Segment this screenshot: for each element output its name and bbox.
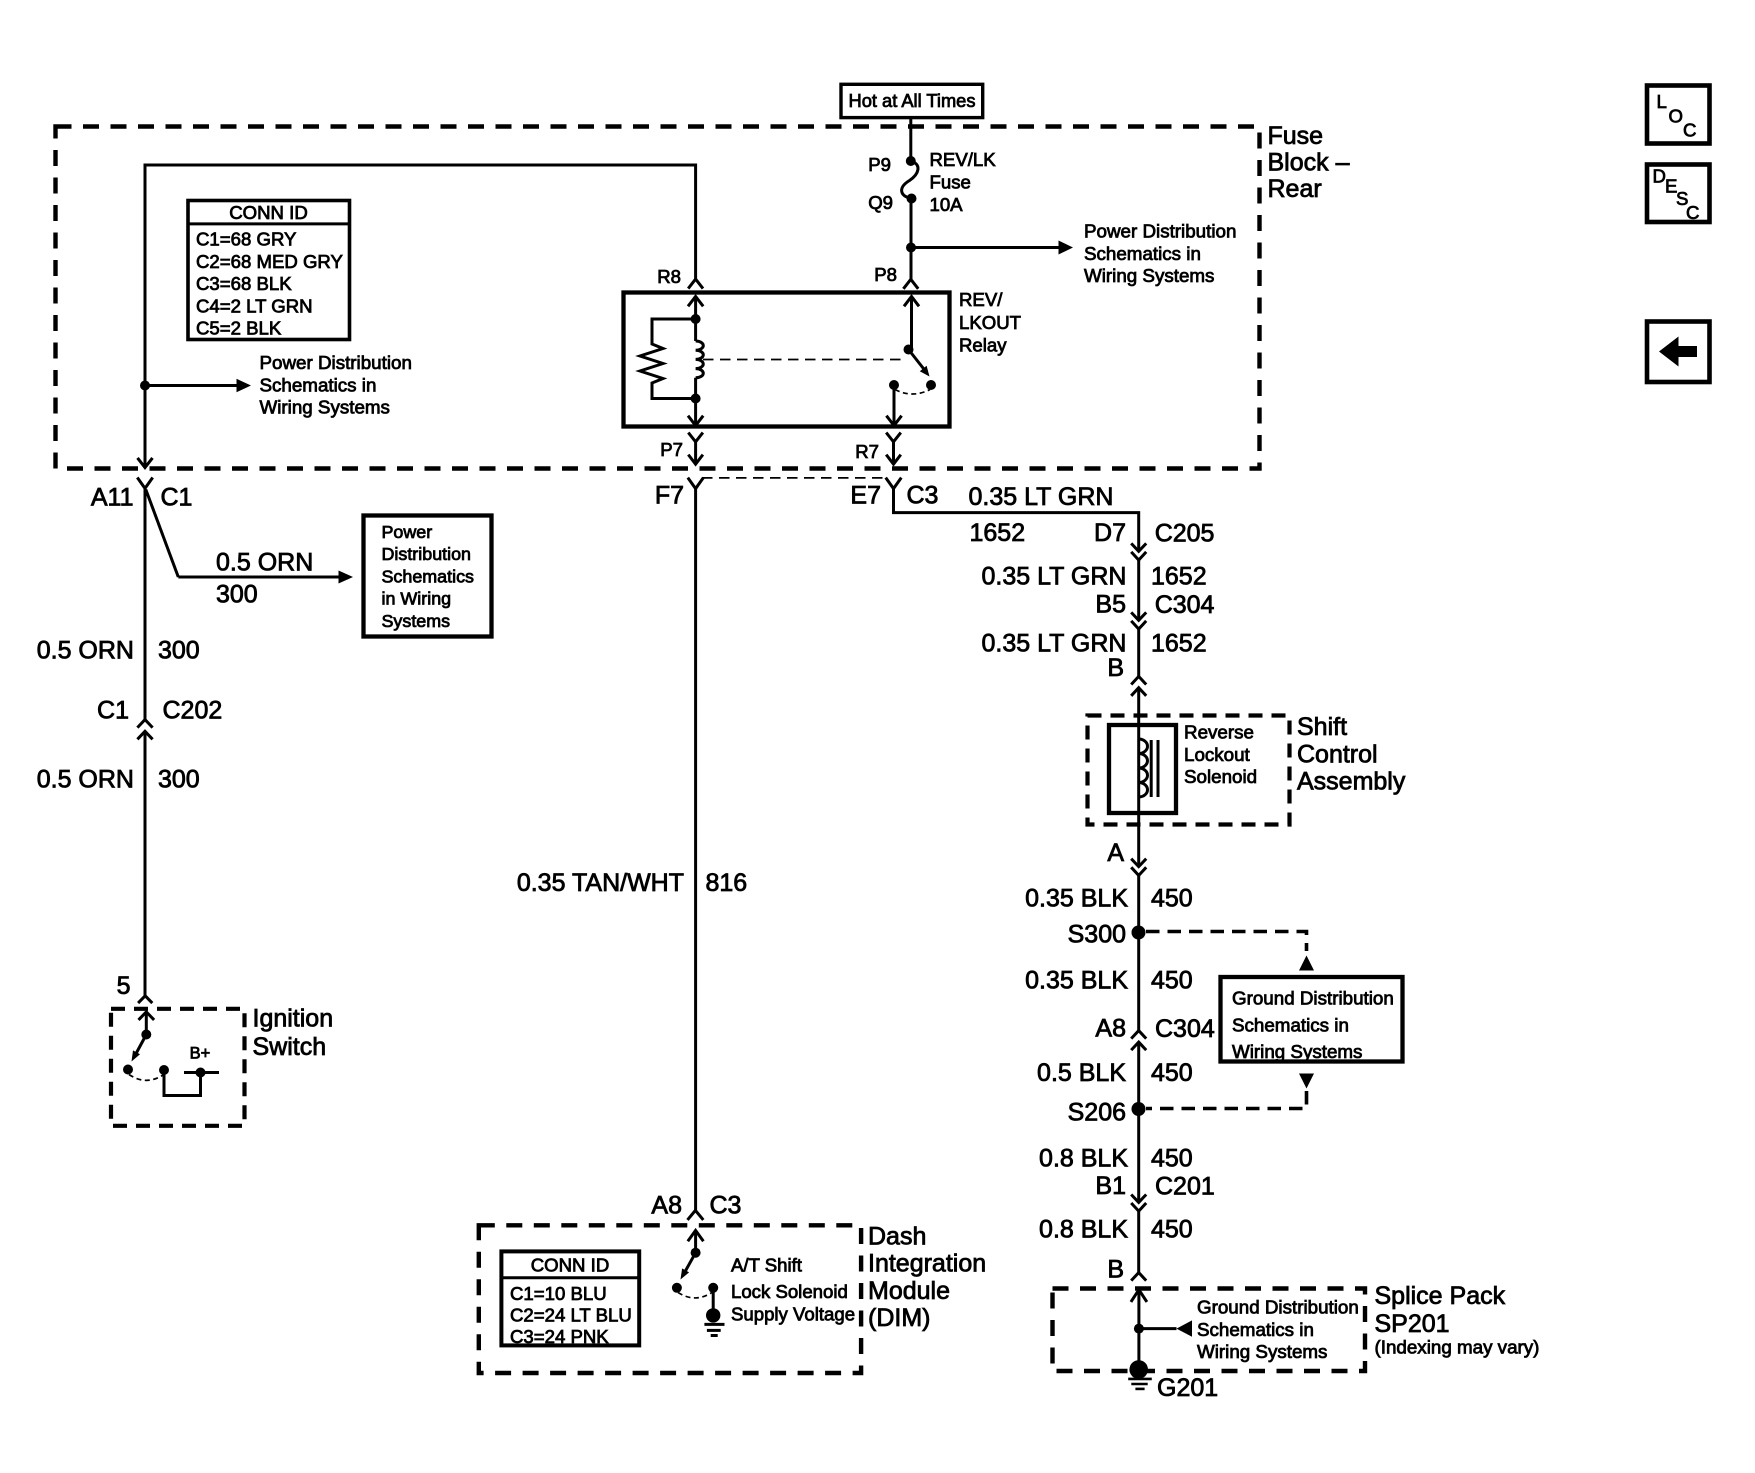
terminal P9 (868, 154, 916, 175)
relay switch contacts (889, 380, 936, 394)
svg-text:P7: P7 (660, 439, 683, 460)
svg-text:0.35 LT GRN: 0.35 LT GRN (982, 630, 1127, 658)
wire fuse block top run to R8 (145, 165, 696, 468)
connector E7 / C3 (850, 478, 938, 510)
relay coil-contact dashed link (703, 359, 904, 361)
conn id table DIM (501, 1251, 639, 1347)
relay pin P8 arrow (904, 297, 919, 350)
svg-text:0.5 BLK: 0.5 BLK (1037, 1059, 1126, 1087)
svg-text:Distribution: Distribution (382, 544, 472, 564)
svg-text:0.8 BLK: 0.8 BLK (1039, 1216, 1128, 1244)
svg-text:O: O (1669, 106, 1683, 127)
svg-text:1652: 1652 (970, 519, 1026, 547)
svg-text:C201: C201 (1155, 1173, 1215, 1201)
svg-text:R8: R8 (657, 266, 681, 287)
splice pack SP201 dashed enclosure (1053, 1289, 1366, 1372)
dashed reference ground distribution to S206 (1146, 1091, 1307, 1109)
svg-text:B1: B1 (1095, 1172, 1126, 1200)
connector B5 / C304 (1095, 591, 1214, 630)
svg-text:C3=68 BLK: C3=68 BLK (196, 273, 292, 294)
connector link F7-E7 dashed (702, 477, 887, 479)
svg-text:C: C (1686, 202, 1699, 223)
svg-text:D: D (1653, 166, 1666, 187)
relay switch arm (904, 345, 930, 377)
terminal Q9 (868, 192, 916, 213)
reference arrow ground distribution (splice pack) (1139, 1297, 1359, 1363)
label Dash Integration Module (DIM) (868, 1223, 986, 1333)
arrow out of ground distribution box (1299, 1074, 1314, 1089)
reference arrow to power distribution schematics (top) (911, 221, 1236, 287)
svg-text:in Wiring: in Wiring (382, 589, 452, 609)
wire label 0.5 ORN 300 upper (37, 637, 200, 665)
svg-text:A8: A8 (651, 1192, 682, 1220)
svg-text:1652: 1652 (1151, 563, 1207, 591)
svg-text:Relay: Relay (959, 335, 1007, 356)
svg-text:Schematics in: Schematics in (1232, 1015, 1349, 1036)
svg-text:A11: A11 (91, 484, 134, 512)
svg-text:Supply Voltage: Supply Voltage (731, 1303, 855, 1324)
svg-text:0.8 BLK: 0.8 BLK (1039, 1145, 1128, 1173)
svg-text:F7: F7 (655, 482, 684, 510)
svg-text:Fuse: Fuse (930, 172, 971, 193)
svg-text:0.5 ORN: 0.5 ORN (37, 766, 134, 794)
connector pin B splice pack (1107, 1256, 1146, 1284)
fuse block rear dashed enclosure (56, 127, 1260, 469)
connector P7 (660, 433, 703, 465)
shift control assembly dashed enclosure (1088, 716, 1290, 825)
connector C1 / C202 (97, 697, 222, 740)
svg-text:Ground Distribution: Ground Distribution (1232, 988, 1394, 1009)
wire A11 exit arrow (138, 458, 153, 468)
splice S300 (1068, 921, 1146, 949)
relay pin R7 arrow (886, 385, 901, 426)
connector D7 / C205 (1094, 519, 1214, 560)
svg-text:CONN ID: CONN ID (229, 202, 308, 223)
svg-text:C5=2 BLK: C5=2 BLK (196, 318, 282, 339)
svg-text:B: B (1107, 1256, 1124, 1284)
svg-text:450: 450 (1151, 967, 1193, 995)
connector B1 / C201 (1095, 1172, 1214, 1211)
solenoid coil L1 (1139, 739, 1158, 797)
svg-text:450: 450 (1151, 885, 1193, 913)
svg-text:450: 450 (1151, 1059, 1193, 1087)
svg-text:C2=24 LT BLU: C2=24 LT BLU (510, 1305, 632, 1326)
ground distribution schematics box (1221, 977, 1403, 1062)
svg-text:R7: R7 (855, 441, 879, 462)
svg-text:C1=10 BLU: C1=10 BLU (510, 1283, 607, 1304)
wire C202 down to ignition switch (144, 731, 147, 996)
svg-text:C3: C3 (907, 482, 939, 510)
svg-text:Solenoid: Solenoid (1184, 766, 1257, 787)
svg-text:Lock Solenoid: Lock Solenoid (731, 1281, 848, 1302)
node splice pack junction (1134, 1324, 1144, 1334)
relay pin R8 arrow (688, 297, 703, 320)
svg-text:REV/LK: REV/LK (930, 149, 997, 170)
svg-text:D7: D7 (1094, 519, 1126, 547)
connector pin A shift control (1107, 839, 1146, 875)
svg-text:Wiring Systems: Wiring Systems (1232, 1041, 1362, 1062)
svg-text:Assembly: Assembly (1297, 768, 1406, 796)
svg-text:S206: S206 (1068, 1099, 1126, 1127)
connector F7 (655, 478, 704, 510)
wire F7 down to DIM (694, 489, 697, 1211)
svg-text:Module: Module (868, 1277, 950, 1305)
relay coil (696, 319, 704, 399)
svg-text:Schematics in: Schematics in (1197, 1319, 1314, 1340)
wire label 0.8 BLK 450 (first) (1039, 1145, 1193, 1173)
svg-text:Dash: Dash (868, 1223, 926, 1251)
wire label 0.35 LT GRN circuit 1652 (969, 483, 1114, 547)
svg-text:Switch: Switch (253, 1033, 327, 1061)
svg-text:Power Distribution: Power Distribution (1084, 221, 1236, 242)
svg-text:Schematics in: Schematics in (260, 374, 377, 395)
svg-text:Reverse: Reverse (1184, 722, 1254, 743)
connector R7 (855, 433, 901, 465)
splice S206 (1068, 1099, 1146, 1127)
svg-text:Q9: Q9 (868, 192, 893, 213)
splice pack pin arrow (1131, 1290, 1147, 1329)
label Splice Pack SP201 (1375, 1282, 1540, 1358)
svg-text:B+: B+ (190, 1045, 211, 1063)
svg-text:Ground Distribution: Ground Distribution (1197, 1297, 1359, 1318)
svg-text:300: 300 (158, 637, 200, 665)
ignition switch pin arrow (139, 1012, 155, 1035)
svg-text:0.35 BLK: 0.35 BLK (1025, 885, 1128, 913)
wire solenoid to A (1137, 797, 1140, 867)
wire fuse to relay P8 (910, 199, 913, 280)
wire label 0.35 TAN/WHT 816 (517, 869, 747, 897)
svg-text:B5: B5 (1095, 591, 1126, 619)
svg-text:C1: C1 (97, 697, 129, 725)
node power distribution tap (906, 243, 916, 253)
svg-text:A: A (1107, 839, 1124, 867)
connector pin B shift control (1107, 654, 1146, 696)
ground G201 (1128, 1329, 1218, 1402)
svg-text:LKOUT: LKOUT (959, 312, 1021, 333)
svg-text:Schematics in: Schematics in (1084, 243, 1201, 264)
relay pin P7 arrow (688, 399, 703, 426)
DIM switch travel arc (672, 1283, 712, 1298)
wire label 0.35 BLK 450 (first) (1025, 885, 1193, 913)
svg-text:REV/: REV/ (959, 289, 1003, 310)
ignition switch B+ contact (159, 1045, 219, 1096)
svg-text:Splice Pack: Splice Pack (1375, 1282, 1506, 1310)
label Ignition Switch (253, 1005, 334, 1061)
label Fuse Block - Rear (1268, 122, 1350, 203)
svg-text:Wiring Systems: Wiring Systems (260, 397, 390, 418)
svg-text:0.5 ORN: 0.5 ORN (216, 549, 313, 577)
svg-text:CONN ID: CONN ID (531, 1255, 610, 1276)
reverse lockout solenoid box (1109, 722, 1257, 814)
wire C201 to splice pack (1137, 1211, 1140, 1273)
node Hot at All Times (841, 84, 983, 117)
dashed reference S300 to ground distribution (1146, 932, 1307, 952)
svg-text:Schematics: Schematics (382, 566, 475, 586)
svg-text:450: 450 (1151, 1216, 1193, 1244)
svg-text:Fuse: Fuse (1268, 122, 1324, 150)
wire label 0.35 BLK 450 (second) (1025, 967, 1193, 995)
svg-text:Ignition: Ignition (253, 1005, 334, 1033)
svg-text:Lockout: Lockout (1184, 744, 1251, 765)
wire label 0.5 BLK 450 (1037, 1059, 1193, 1087)
connector A8 / C3 at DIM (651, 1192, 741, 1220)
svg-text:C1: C1 (161, 484, 193, 512)
ignition switch dashed enclosure (111, 1009, 245, 1126)
wire label 0.8 BLK 450 (second) (1039, 1216, 1193, 1244)
fuse REV/LK 10A (902, 149, 997, 215)
DIM switch fixed contact with ground (704, 1283, 724, 1336)
wire A11 down to C202 (144, 488, 147, 719)
wire hot feed down to fuse (909, 118, 912, 161)
relay REV/LKOUT box (624, 289, 1022, 427)
connector A8 / C304 (1095, 1015, 1214, 1051)
svg-text:0.35 BLK: 0.35 BLK (1025, 967, 1128, 995)
icon LOC button (1647, 86, 1710, 144)
wire B into solenoid (1137, 688, 1140, 739)
svg-text:Rear: Rear (1268, 175, 1322, 203)
wire C304 to shift control (1137, 629, 1140, 676)
svg-text:S300: S300 (1068, 921, 1126, 949)
svg-text:E7: E7 (850, 482, 881, 510)
svg-text:Block –: Block – (1268, 149, 1350, 177)
svg-text:0.35 LT GRN: 0.35 LT GRN (969, 483, 1114, 511)
svg-text:300: 300 (158, 766, 200, 794)
svg-text:C202: C202 (163, 697, 223, 725)
node relay coil top (691, 314, 701, 324)
connector pin 5 (117, 972, 153, 1003)
wire label 0.35 LT GRN 1652 (second) (982, 563, 1207, 591)
power distribution schematics box (364, 516, 492, 637)
svg-text:Wiring Systems: Wiring Systems (1084, 265, 1214, 286)
svg-text:C205: C205 (1155, 520, 1215, 548)
wire C304 to C201 (1137, 1042, 1140, 1202)
svg-text:P8: P8 (874, 264, 897, 285)
svg-text:300: 300 (216, 581, 258, 609)
svg-text:0.35 LT GRN: 0.35 LT GRN (982, 563, 1127, 591)
svg-text:(Indexing may vary): (Indexing may vary) (1375, 1337, 1540, 1358)
svg-text:C3=24 PNK: C3=24 PNK (510, 1326, 609, 1347)
svg-text:G201: G201 (1157, 1374, 1218, 1402)
svg-text:816: 816 (706, 869, 748, 897)
svg-text:1652: 1652 (1151, 630, 1207, 658)
ignition switch contact travel arc (123, 1065, 163, 1081)
wire label 0.35 LT GRN 1652 (third) (982, 630, 1207, 658)
svg-text:B: B (1107, 654, 1124, 682)
reference arrow to power distribution schematics (left) (145, 352, 412, 418)
conn id table fuse block (188, 201, 350, 340)
svg-text:C304: C304 (1155, 591, 1215, 619)
arrow into ground distribution box (1299, 956, 1314, 971)
svg-text:L: L (1657, 91, 1667, 112)
icon DESC button (1647, 165, 1710, 224)
svg-text:SP201: SP201 (1375, 1310, 1450, 1338)
wire label 0.5 ORN 300 lower (37, 766, 200, 794)
svg-text:C304: C304 (1155, 1015, 1215, 1043)
DIM pin arrow (688, 1230, 704, 1252)
svg-text:10A: 10A (930, 194, 964, 215)
connector R8 (657, 266, 703, 289)
svg-text:Control: Control (1297, 740, 1378, 768)
svg-text:C4=2 LT GRN: C4=2 LT GRN (196, 295, 313, 316)
svg-text:450: 450 (1151, 1145, 1193, 1173)
connector P8 (874, 264, 918, 289)
svg-text:C: C (1683, 120, 1696, 141)
svg-text:0.5 ORN: 0.5 ORN (37, 637, 134, 665)
svg-text:Systems: Systems (382, 611, 451, 631)
resistor relay shunt (640, 319, 696, 399)
svg-text:Wiring Systems: Wiring Systems (1197, 1341, 1327, 1362)
label A/T shift lock solenoid supply voltage (731, 1255, 855, 1325)
svg-text:Hot at All Times: Hot at All Times (849, 90, 976, 111)
connector A11 / C1 (91, 478, 193, 512)
wire branch to power distribution reference (146, 490, 353, 609)
wire E7 to C205 (894, 489, 1139, 552)
ignition switch movable contact (132, 1030, 152, 1062)
node left power distribution tap (140, 381, 150, 391)
wire C205 to C304 (1137, 560, 1140, 620)
svg-text:5: 5 (117, 972, 131, 1000)
svg-text:Integration: Integration (868, 1250, 986, 1278)
svg-text:Shift: Shift (1297, 713, 1347, 741)
svg-text:C1=68 GRY: C1=68 GRY (196, 229, 296, 250)
label Shift Control Assembly (1297, 713, 1406, 796)
svg-text:0.35 TAN/WHT: 0.35 TAN/WHT (517, 869, 684, 897)
svg-text:C2=68 MED GRY: C2=68 MED GRY (196, 251, 343, 272)
node relay coil bottom (691, 394, 701, 404)
svg-text:Power: Power (382, 522, 433, 542)
wire A to S300 (1137, 875, 1140, 1030)
svg-text:Power Distribution: Power Distribution (260, 352, 412, 373)
svg-text:P9: P9 (868, 154, 891, 175)
svg-text:A8: A8 (1095, 1015, 1126, 1043)
DIM switch movable contact (681, 1248, 701, 1280)
svg-text:C3: C3 (710, 1192, 742, 1220)
svg-text:A/T Shift: A/T Shift (731, 1255, 803, 1276)
dash integration module dashed enclosure (479, 1225, 861, 1373)
svg-text:(DIM): (DIM) (868, 1304, 930, 1332)
icon back-arrow button (1647, 322, 1710, 383)
